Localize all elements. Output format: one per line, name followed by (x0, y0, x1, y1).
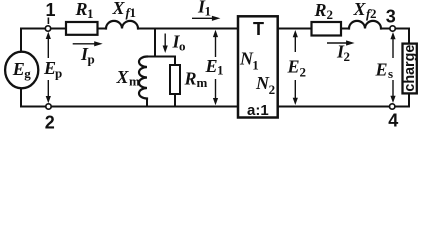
wire Xm to bottom wire (146, 99, 148, 107)
wire R1 to Xf1 (99, 28, 107, 30)
svg-text:1: 1 (87, 6, 94, 21)
current arrow I2 (327, 40, 355, 64)
svg-text:E: E (12, 59, 25, 79)
load box charge (402, 44, 418, 94)
svg-text:E: E (375, 60, 388, 80)
svg-text:E: E (287, 57, 300, 77)
node 1 (45, 0, 55, 31)
svg-text:R: R (75, 0, 88, 19)
wire Rm to bottom wire (174, 94, 176, 107)
voltage arrow E1 (205, 30, 224, 106)
node 3 (386, 6, 396, 31)
label Xf2 (353, 0, 377, 21)
wire Xf2 to node 3 (381, 28, 390, 30)
wire shunt top bar (147, 56, 175, 58)
wire R2 to Xf2 (342, 28, 350, 30)
svg-text:m: m (129, 74, 140, 89)
svg-text:2: 2 (344, 49, 351, 64)
svg-text:1: 1 (217, 63, 224, 78)
svg-text:E: E (205, 56, 218, 76)
wire bottom main right (279, 106, 409, 108)
wire node 3 to charge (395, 29, 409, 43)
voltage arrow Ep (43, 32, 62, 103)
svg-text:4: 4 (388, 111, 398, 130)
wire node1 to R1 (51, 28, 65, 30)
svg-text:2: 2 (300, 65, 307, 80)
resistor Rm (170, 65, 208, 94)
svg-text:X: X (112, 0, 126, 18)
inductor Xf2 (349, 21, 381, 29)
wire charge to bottom (408, 95, 410, 107)
svg-text:R: R (314, 0, 327, 20)
wire Xf1 to transformer box (138, 28, 237, 30)
label Xm (116, 67, 141, 89)
svg-text:X: X (116, 67, 130, 87)
wire top bar to Rm (174, 57, 176, 66)
svg-text:T: T (253, 19, 264, 39)
svg-text:charge: charge (402, 45, 418, 92)
svg-text:p: p (88, 52, 95, 67)
svg-text:2: 2 (45, 113, 55, 131)
svg-text:g: g (24, 66, 31, 81)
wire bottom main left (46, 106, 237, 108)
svg-text:1: 1 (46, 0, 56, 20)
svg-text:2: 2 (327, 7, 334, 22)
inductor Xm (139, 57, 147, 99)
svg-text:2: 2 (370, 6, 377, 21)
voltage arrow Es (375, 32, 396, 103)
wire bottom-left from generator to node 2 (21, 88, 46, 107)
wire transformer to R2 (279, 28, 311, 30)
current arrow Io (163, 32, 186, 54)
generator Eg (5, 52, 38, 89)
current arrow Ip (73, 41, 103, 66)
resistor R1 (66, 0, 98, 35)
node 2 (45, 104, 55, 133)
svg-text:p: p (55, 66, 62, 81)
svg-text:o: o (179, 39, 186, 54)
inductor Xf1 (106, 21, 138, 29)
voltage arrow E2 (287, 30, 307, 105)
current arrow I1 (192, 0, 220, 21)
svg-text:a:1: a:1 (247, 102, 269, 119)
transformer U1 box T (238, 16, 278, 119)
label Xf1 (112, 0, 137, 20)
wire shunt branch drop (154, 30, 156, 57)
svg-text:1: 1 (130, 5, 137, 20)
svg-text:m: m (197, 75, 208, 90)
svg-text:X: X (353, 0, 367, 19)
wire top-left from generator to node 1 (21, 29, 46, 53)
node 4 (388, 104, 398, 131)
svg-text:s: s (388, 66, 393, 81)
svg-text:1: 1 (205, 4, 212, 19)
svg-text:1: 1 (252, 58, 258, 73)
svg-text:3: 3 (386, 6, 396, 26)
resistor R2 (312, 0, 342, 36)
svg-text:2: 2 (269, 82, 276, 97)
svg-text:R: R (184, 69, 197, 89)
